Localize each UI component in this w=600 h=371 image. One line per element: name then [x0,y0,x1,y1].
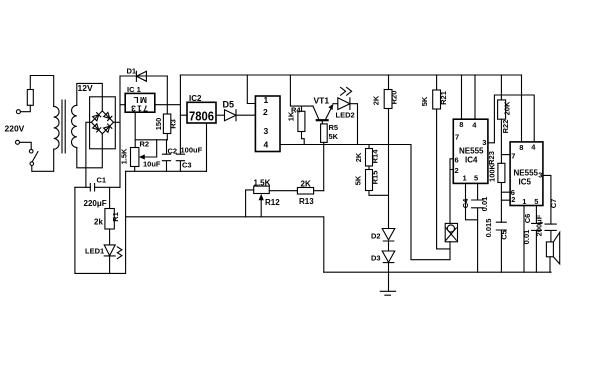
svg-text:3: 3 [482,138,486,147]
wire rail right corner to IC5 pin8 [521,75,523,142]
wire rail left corner down to IC2 input [180,75,187,115]
svg-text:R13: R13 [299,197,314,206]
capacitor C7 [545,224,556,242]
wire bottom rail [324,271,551,273]
wire bridge right corner to DC plus vertical [114,121,121,123]
transformer core [62,100,65,153]
svg-text:C1: C1 [97,176,107,185]
svg-text:2: 2 [511,195,515,204]
bridge diode top-left [93,113,101,121]
diode D2 [382,229,395,252]
svg-text:1: 1 [137,104,142,114]
svg-text:IC4: IC4 [465,156,478,165]
svg-text:D1: D1 [127,67,137,76]
wire bottom terminal to switch [20,142,32,149]
svg-text:C7: C7 [549,199,558,209]
svg-text:0.01: 0.01 [522,230,531,245]
resistor R14 [368,145,370,149]
svg-text:R5: R5 [329,123,339,132]
wire IC5 pin6 and pin2 taps [501,192,510,200]
svg-text:2: 2 [455,166,459,175]
fuse FU [27,90,33,106]
svg-text:C4: C4 [461,198,470,208]
svg-text:R21: R21 [439,91,448,105]
svg-text:C5: C5 [500,230,509,240]
wire secondary bottom to bridge bottom [77,134,103,168]
wire IC4 pin4 to rail [474,75,476,119]
svg-text:200μF: 200μF [535,214,544,236]
svg-text:R15: R15 [371,171,380,185]
svg-text:0.015: 0.015 [484,219,493,238]
svg-text:5: 5 [534,197,538,206]
wire D1 right vertical to R3 [166,76,168,114]
svg-text:20K: 20K [503,101,512,115]
svg-text:R2: R2 [140,140,150,149]
capacitor C3 [176,115,184,171]
svg-text:IC2: IC2 [189,94,202,103]
svg-text:1K: 1K [287,111,296,121]
svg-text:5K: 5K [420,96,429,106]
svg-text:D5: D5 [223,100,235,110]
capacitor C6 [532,206,542,273]
wire IC4 pin8 to rail [461,75,463,119]
svg-text:R3: R3 [169,119,178,129]
svg-text:220V: 220V [5,124,25,134]
wire IC1 output [155,104,181,106]
resistor R3 [163,114,170,134]
wire low bus from indicator box to ground corner [126,217,324,272]
svg-text:8: 8 [519,143,523,152]
svg-text:2k: 2k [94,218,103,227]
svg-text:C2: C2 [168,146,178,155]
capacitor C4 [472,183,484,272]
svg-text:LED1: LED1 [85,247,104,256]
svg-text:7806: 7806 [189,108,214,123]
wire sensor bottom loop [411,145,450,260]
wire R2 bottom [134,167,136,172]
wire DC plus vertical [119,76,121,187]
resistor R15 [368,166,370,170]
resistor R21 [436,75,438,90]
svg-text:VT1: VT1 [314,96,330,106]
capacitor C1 wires [75,186,120,188]
svg-text:LED2: LED2 [336,111,355,120]
svg-text:R14: R14 [371,149,380,164]
wire IC5 pin3 output [543,175,551,224]
capacitor C5 [496,222,506,272]
resistor R1 [109,187,111,208]
wire top terminal to fuse [21,105,31,111]
node 220V input terminals [5,110,25,145]
resistor R5 [321,124,328,142]
switch blade [32,152,38,162]
svg-text:IC 1: IC 1 [127,85,141,94]
LED1 [104,245,115,274]
svg-text:100uF: 100uF [181,146,203,155]
svg-text:100K: 100K [488,163,497,182]
svg-text:150: 150 [154,118,163,131]
svg-text:IC5: IC5 [519,178,532,187]
capacitor C2 [162,140,170,172]
resistor R4 [301,106,303,111]
svg-text:220μF: 220μF [84,199,107,208]
wire IC5 pin7 tap [501,154,510,156]
bridge diode top-right [104,112,112,120]
wire IC4 pin1 ground [466,183,478,219]
svg-text:D2: D2 [371,232,381,241]
sensor B crystal [445,223,457,241]
wire switch to primary bottom [32,149,54,171]
wire connector pin4 [280,144,411,146]
svg-text:3: 3 [538,171,542,180]
svg-text:1.5K: 1.5K [120,148,129,164]
wire adj node [135,139,167,141]
wire VT1 emitter to LED2 [333,103,338,105]
transistor VT1 [313,106,319,119]
wire ground bus of regulator [126,170,207,172]
svg-text:0.01: 0.01 [480,197,489,212]
potentiometer R12 [254,186,270,193]
ground [380,272,395,295]
op-amp IC5 NE555 box [510,142,543,206]
diode D3 [382,251,395,272]
wire IC1 input [120,104,125,106]
op-amp IC4 NE555 box [453,119,488,183]
svg-text:10uF: 10uF [143,160,161,169]
wire fuse to primary top [30,76,53,107]
potentiometer R2 [131,148,139,167]
svg-text:1: 1 [463,174,467,183]
resistor R20 [388,75,390,90]
svg-text:7: 7 [143,104,148,114]
svg-text:D3: D3 [371,254,381,263]
wire IC2 ground [206,123,208,171]
bridge diode bottom-right [104,124,112,132]
rectifier bridge diamond [91,111,113,134]
svg-text:M: M [140,95,147,105]
wire top rail [180,74,521,76]
resistor R13 [297,188,313,195]
svg-text:7: 7 [455,132,459,141]
svg-text:1: 1 [264,95,269,105]
svg-text:2K: 2K [372,95,381,105]
op-amp IC1 LM317 box [125,93,155,112]
wire connector pin1 to rail [247,75,255,104]
resistor R23 [498,163,505,182]
wire bridge left corner to DC minus [86,122,92,187]
svg-text:2K: 2K [354,152,363,162]
transformer T primary winding [54,106,59,149]
wire IC4 pins 6 and 2 tied to sensor [450,159,453,224]
svg-text:8: 8 [459,120,463,129]
diode D5 [225,110,237,121]
switch S contact [29,149,33,153]
wire D5 to connector pin2 [236,114,255,116]
transformer T secondary winding [72,105,77,147]
svg-text:C3: C3 [182,161,192,170]
svg-text:1: 1 [522,197,526,206]
svg-text:R12: R12 [265,198,280,207]
svg-text:5K: 5K [329,132,339,141]
svg-text:L: L [133,95,138,105]
speaker BL [546,242,553,257]
LED2 [338,98,358,145]
wire IC1 adj [134,112,136,147]
wire R2 wiper [144,140,157,157]
rectifier bridge VC outline box [90,97,116,149]
svg-text:1.5K: 1.5K [254,178,271,187]
svg-text:5K: 5K [354,175,363,185]
svg-text:NE555: NE555 [459,146,484,155]
wire left frame of indicator box [75,171,126,273]
svg-text:6: 6 [455,156,459,165]
svg-text:2: 2 [263,107,268,117]
svg-text:2K: 2K [301,179,311,188]
resistor R22 [500,75,502,100]
svg-text:4: 4 [264,139,269,149]
wire rail drop to VT1 collector [290,75,313,106]
bridge diode bottom-left [93,124,101,132]
wire IC5 pin1 ground [523,206,525,273]
connector XS block [255,96,280,152]
svg-text:12V: 12V [78,83,93,93]
svg-text:C6: C6 [523,214,532,224]
svg-text:R1: R1 [111,212,120,222]
wire secondary top to bridge top [77,83,103,111]
svg-text:7: 7 [511,151,515,160]
op-amp IC2 7806 box [187,102,216,123]
svg-text:R23: R23 [487,151,496,165]
svg-text:R20: R20 [390,91,399,105]
svg-text:5: 5 [474,174,478,183]
svg-text:NE555: NE555 [514,168,539,177]
diode D1 [120,75,167,77]
svg-text:R22: R22 [501,120,510,134]
capacitor C1 plates [90,184,94,191]
svg-text:3: 3 [264,126,269,136]
wire IC2 output [216,114,225,116]
wire IC4 pin3 to IC5 pin4 [488,95,534,143]
